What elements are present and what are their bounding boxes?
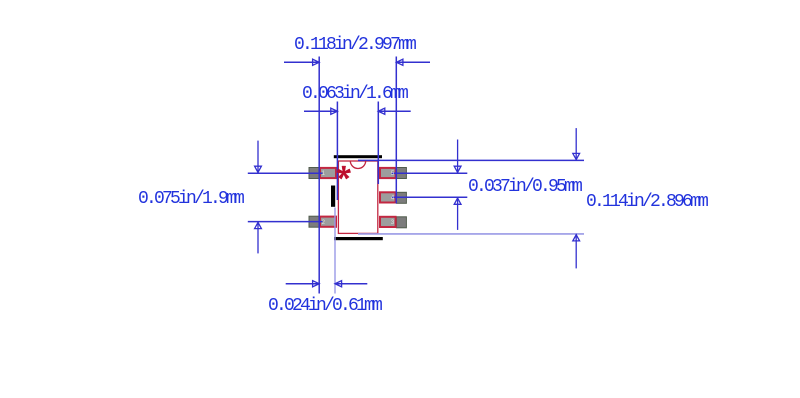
package body outline [338, 161, 377, 233]
dim 0.114 top line [358, 159, 584, 161]
dim 0.037 pin5 line [392, 172, 468, 174]
pin3 pad [380, 217, 396, 227]
pin4 lead [396, 192, 406, 203]
pin1 marker asterisk [337, 166, 351, 179]
extension line body left [336, 102, 338, 201]
dim 0.024 right arrowhead [335, 281, 342, 287]
extension line left of land pattern [318, 57, 320, 294]
dim 0.075 bottom arrow shaft [257, 222, 259, 254]
dim 0.075 bottom arrowhead [255, 222, 262, 228]
dim 0.063 left arrow line [304, 110, 337, 112]
bottom body bar [334, 237, 383, 240]
dim 0.024 left arrowhead [313, 281, 320, 287]
pin1 pad [320, 168, 336, 178]
dim 0.114 top arrowhead [573, 153, 580, 159]
dim 0.075 top arrowhead [255, 166, 262, 172]
dim 0.037 bottom arrowhead [454, 198, 461, 204]
dim 0.063 left arrowhead [331, 108, 338, 114]
left body bar [331, 186, 335, 207]
extension line right of land pattern [395, 57, 397, 204]
dim 0.114 bottom arrowhead [573, 235, 580, 241]
dim 0.063 right arrow line [378, 110, 411, 112]
pin3 lead [396, 217, 406, 228]
dim 0.024 left arrow line [286, 283, 320, 285]
dim 0.037 top arrow shaft [457, 140, 459, 174]
extension line body right [377, 102, 379, 185]
dim 0.118 right arrowhead [396, 59, 403, 65]
dim 0.075 top line to pin1 [248, 172, 323, 174]
pin4 pad [380, 192, 396, 202]
pin2 lead [309, 216, 320, 227]
dim label 0.024in/0.61mm [268, 296, 380, 316]
pin1 lead [309, 168, 320, 179]
dim 0.075 top arrow shaft [257, 141, 259, 174]
dim 0.114 bottom arrow shaft [575, 234, 577, 269]
dim 0.114 top arrow shaft [575, 128, 577, 160]
dim 0.024 right arrow line [335, 283, 367, 285]
dim label 0.118in/2.997mm [294, 35, 414, 55]
dim label 0.114in/2.896mm [586, 192, 706, 212]
dim 0.118 left arrow line [284, 61, 319, 63]
pin5 lead [396, 168, 406, 179]
pin1 orientation arc [350, 161, 365, 169]
dim 0.037 bottom arrow shaft [457, 197, 459, 230]
pin5 pad [380, 168, 396, 178]
pin2 pad [320, 217, 336, 227]
dim 0.118 right arrow line [396, 61, 430, 63]
dim 0.037 pin4 line [392, 196, 468, 198]
dim 0.063 right arrowhead [378, 108, 385, 114]
dim 0.118 left arrowhead [313, 59, 320, 65]
dim label 0.063in/1.6mm [302, 84, 406, 104]
dim label 0.037in/0.95mm [468, 177, 580, 197]
top body bar [334, 155, 382, 158]
dim label 0.075in/1.9mm [138, 189, 242, 209]
extension line inner edge of left pads (light) [334, 208, 336, 294]
dim 0.114 bottom line (light) [358, 233, 584, 235]
dim 0.075 bottom line to pin2 [248, 221, 323, 223]
dim 0.037 top arrowhead [454, 166, 461, 172]
